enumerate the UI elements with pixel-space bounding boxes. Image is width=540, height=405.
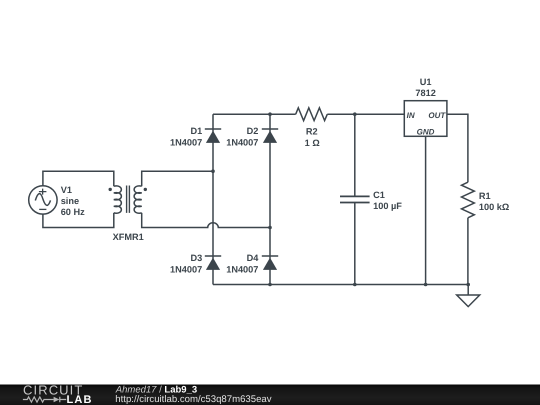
svg-text:R1: R1: [479, 191, 491, 201]
voltage source V1: [29, 186, 57, 214]
svg-text:D4: D4: [247, 253, 260, 263]
label D2 1N4007: [226, 126, 258, 147]
svg-text:7812: 7812: [415, 88, 435, 98]
secondary phase dot: [144, 188, 147, 191]
svg-text:1 Ω: 1 Ω: [305, 138, 320, 148]
diode D1: [205, 129, 221, 143]
svg-text:100 kΩ: 100 kΩ: [479, 202, 509, 212]
svg-text:1N4007: 1N4007: [226, 265, 258, 275]
CircuitLab logo: [23, 383, 93, 405]
ground: [457, 285, 480, 307]
transformer XFMR1: [109, 186, 148, 214]
svg-text:sine: sine: [61, 196, 79, 206]
svg-text:D3: D3: [190, 253, 202, 263]
diode D2: [262, 129, 278, 143]
svg-text:60 Hz: 60 Hz: [61, 207, 85, 217]
wire secondary top to bridge left branch: [142, 171, 213, 186]
wire R1 bottom to rail: [467, 218, 469, 285]
svg-text:IN: IN: [407, 111, 415, 120]
primary phase dot: [109, 188, 112, 191]
svg-text:1N4007: 1N4007: [226, 138, 258, 148]
resistor R1: [462, 182, 475, 218]
wire primary top (V1 top to XFMR1 primary top): [43, 171, 114, 186]
wire top rail left segment: [213, 113, 296, 115]
wire secondary bottom to bridge right branch (hop over left branch): [142, 213, 270, 228]
regulator U1 7812 box: [404, 101, 447, 137]
node right branch hop junction: [268, 226, 272, 230]
svg-text:GND: GND: [417, 128, 435, 137]
svg-text:D2: D2: [247, 126, 259, 136]
svg-text:XFMR1: XFMR1: [113, 232, 144, 242]
diode D3: [205, 256, 221, 270]
wire bridge right branch: [269, 114, 271, 284]
logo wire with resistor and diode: [23, 397, 54, 402]
capacitor C1: [340, 114, 370, 284]
wire U1 GND down to bottom rail: [425, 136, 427, 284]
diode D4: [262, 256, 278, 270]
core: [127, 186, 130, 213]
node top rail at C1 tap: [353, 112, 357, 116]
wire bottom rail: [213, 284, 468, 286]
svg-text:http://circuitlab.com/c53q87m6: http://circuitlab.com/c53q87m635eav: [115, 394, 271, 405]
svg-text:C1: C1: [373, 190, 385, 200]
wire bridge left branch: [212, 114, 214, 284]
svg-text:1N4007: 1N4007: [170, 138, 202, 148]
wire top rail right segment (R2 to U1 IN): [327, 113, 404, 115]
svg-text:U1: U1: [420, 77, 432, 87]
label U1 7812: [415, 77, 435, 98]
svg-text:1N4007: 1N4007: [170, 265, 202, 275]
node bottom rail at right branch: [268, 283, 272, 287]
resistor R2: [296, 108, 328, 121]
label D1 1N4007: [170, 126, 202, 147]
node bottom rail at U1 GND: [424, 283, 428, 287]
wire U1 OUT to R1 top: [447, 114, 468, 182]
node left branch secondary junction: [211, 169, 215, 173]
svg-text:D1: D1: [190, 126, 202, 136]
node top rail at right branch: [268, 112, 272, 116]
secondary winding: [134, 186, 142, 213]
label R1 100 kohm: [479, 191, 509, 212]
svg-text:100 µF: 100 µF: [373, 201, 402, 211]
primary winding: [114, 186, 122, 213]
label D4 1N4007: [226, 253, 259, 274]
wire primary bottom (V1 bottom to XFMR1 primary bottom): [43, 213, 114, 228]
svg-text:V1: V1: [61, 185, 72, 195]
label V1 sine 60 Hz: [61, 185, 85, 217]
label C1 100 uF: [373, 190, 402, 211]
node bottom rail at R1/ground: [466, 283, 470, 287]
pin labels IN OUT GND: [407, 111, 447, 137]
svg-text:OUT: OUT: [428, 111, 446, 120]
label R2 1 ohm: [305, 126, 320, 148]
svg-text:R2: R2: [306, 126, 318, 136]
node bottom rail at C1: [353, 283, 357, 287]
label D3 1N4007: [170, 253, 202, 274]
svg-text:LAB: LAB: [67, 394, 93, 405]
